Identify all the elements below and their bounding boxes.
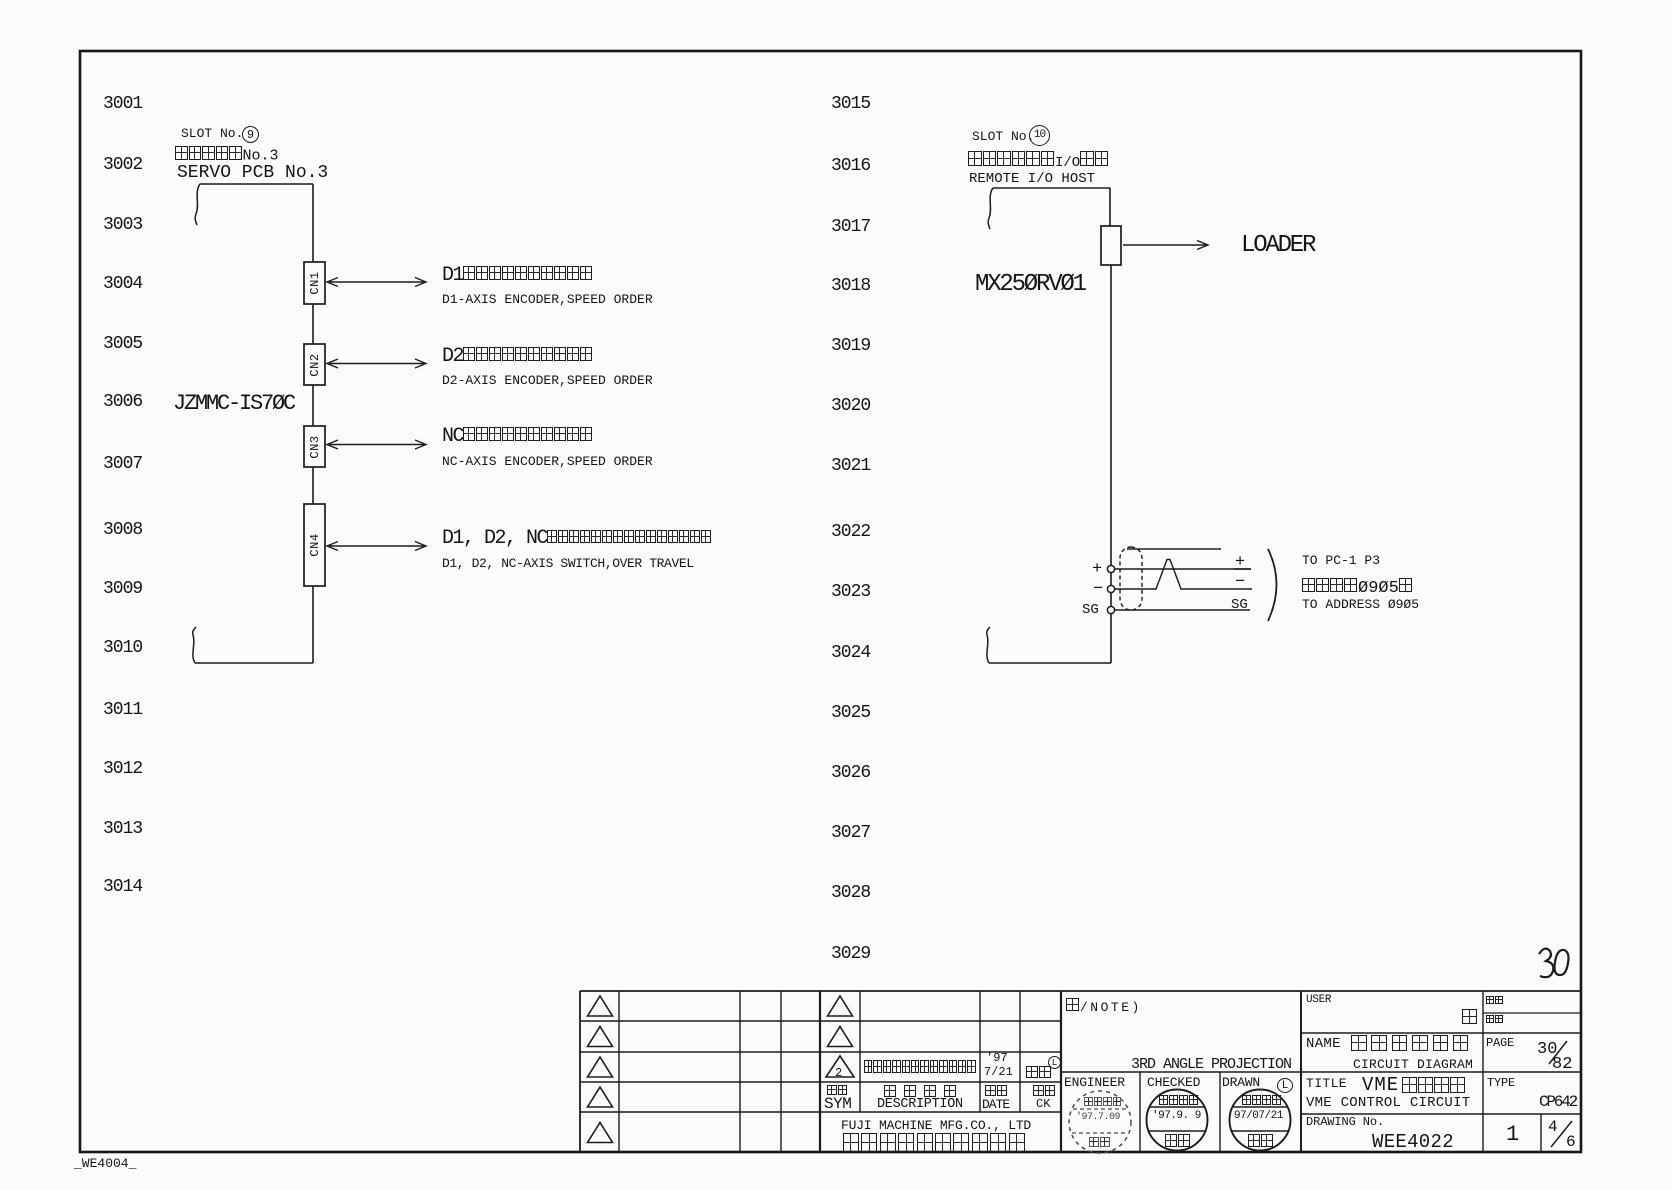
svg-text:2: 2 <box>835 1066 842 1080</box>
